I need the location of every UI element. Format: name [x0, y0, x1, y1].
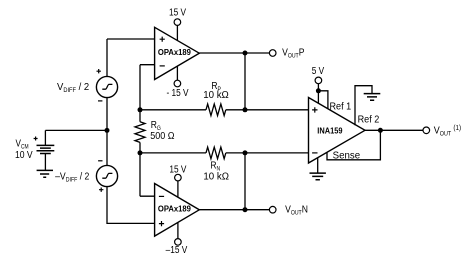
svg-text:10 kΩ: 10 kΩ — [203, 90, 229, 101]
svg-text:OPAx189: OPAx189 — [158, 204, 191, 213]
svg-text:OPAx189: OPAx189 — [158, 48, 191, 57]
svg-text:INA159: INA159 — [317, 126, 342, 135]
svg-text:10 V: 10 V — [15, 149, 33, 160]
svg-text:Ref 1: Ref 1 — [330, 101, 352, 113]
svg-text:15 V: 15 V — [169, 164, 187, 175]
svg-text:- 15 V: - 15 V — [166, 87, 189, 98]
svg-text:500 Ω: 500 Ω — [150, 131, 174, 143]
svg-text:15 V: 15 V — [169, 7, 187, 18]
svg-text:10 kΩ: 10 kΩ — [203, 171, 229, 182]
svg-text:–15 V: –15 V — [166, 244, 188, 255]
svg-text:Sense: Sense — [333, 150, 361, 161]
svg-text:Ref 2: Ref 2 — [358, 114, 380, 126]
svg-text:5 V: 5 V — [312, 65, 325, 76]
